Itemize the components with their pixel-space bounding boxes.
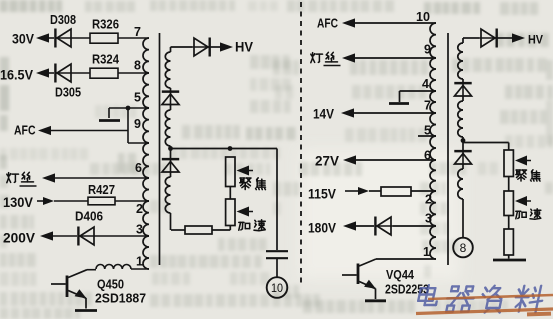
- svg-text:R326: R326: [92, 18, 119, 32]
- svg-text:16.5V: 16.5V: [0, 68, 33, 83]
- svg-text:AFC: AFC: [317, 17, 338, 31]
- svg-text:9: 9: [424, 43, 431, 57]
- svg-text:1: 1: [136, 255, 143, 269]
- svg-text:200V: 200V: [3, 231, 35, 246]
- svg-text:30V: 30V: [12, 32, 34, 47]
- svg-text:AFC: AFC: [14, 124, 36, 138]
- svg-text:R324: R324: [92, 53, 119, 67]
- svg-text:8: 8: [460, 241, 467, 255]
- svg-text:HV: HV: [235, 39, 254, 55]
- svg-text:2SD1887: 2SD1887: [95, 292, 146, 306]
- svg-text:VQ44: VQ44: [386, 268, 414, 282]
- svg-text:R427: R427: [88, 183, 115, 197]
- svg-text:2: 2: [136, 202, 143, 216]
- svg-text:5: 5: [134, 91, 141, 105]
- svg-text:4: 4: [422, 77, 429, 91]
- svg-text:10: 10: [271, 281, 283, 295]
- svg-text:10: 10: [416, 10, 430, 24]
- svg-text:27V: 27V: [315, 154, 339, 169]
- svg-text:8: 8: [134, 59, 141, 73]
- svg-text:HV: HV: [528, 33, 543, 47]
- svg-text:6: 6: [135, 161, 142, 175]
- svg-text:D308: D308: [50, 13, 76, 27]
- svg-text:Q450: Q450: [97, 278, 124, 292]
- svg-text:5: 5: [424, 124, 431, 138]
- svg-text:9: 9: [134, 117, 141, 131]
- svg-text:7: 7: [424, 99, 431, 113]
- svg-text:D305: D305: [55, 86, 81, 100]
- svg-text:130V: 130V: [3, 195, 33, 210]
- svg-text:180V: 180V: [308, 221, 336, 236]
- svg-text:3: 3: [425, 212, 432, 226]
- svg-text:2: 2: [425, 193, 432, 207]
- svg-text:115V: 115V: [308, 187, 336, 202]
- svg-text:14V: 14V: [313, 107, 334, 122]
- svg-text:D406: D406: [75, 210, 103, 224]
- svg-text:3: 3: [136, 223, 143, 237]
- svg-text:1: 1: [423, 245, 430, 259]
- svg-text:6: 6: [424, 149, 431, 163]
- svg-text:7: 7: [134, 25, 141, 39]
